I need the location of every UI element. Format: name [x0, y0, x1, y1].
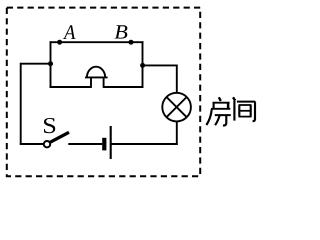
wire bottom-left of parallel branch	[50, 86, 92, 88]
wire right side of parallel branch	[142, 41, 144, 88]
node right junction	[140, 63, 145, 68]
wire left node to outer left	[21, 63, 51, 65]
label A	[63, 25, 75, 39]
wire bottom to switch	[20, 143, 44, 145]
room dashed boundary	[7, 8, 200, 177]
node left junction	[48, 61, 53, 66]
wire top of parallel branch	[50, 41, 144, 43]
node A	[57, 40, 62, 45]
wire left side of parallel branch	[50, 41, 52, 88]
label B	[115, 25, 128, 38]
switch S pivot	[44, 141, 50, 147]
wire right vertical below lamp	[176, 121, 178, 144]
wire outer left vertical	[20, 63, 22, 145]
lamp L	[162, 93, 191, 122]
battery negative plate	[102, 138, 106, 151]
label fang (房) drawn strokes	[206, 97, 230, 125]
label jian (间) drawn strokes	[233, 97, 255, 121]
wire bottom-right of parallel branch	[104, 86, 144, 88]
wire battery to right corner	[112, 143, 178, 145]
node B	[129, 40, 134, 45]
switch S lever	[50, 132, 70, 142]
wire right vertical above lamp	[176, 65, 178, 93]
wire switch to battery	[68, 143, 102, 145]
label S	[44, 118, 55, 133]
electric bell	[85, 67, 108, 88]
battery positive plate	[110, 126, 112, 159]
wire right node to lamp branch	[144, 64, 178, 66]
